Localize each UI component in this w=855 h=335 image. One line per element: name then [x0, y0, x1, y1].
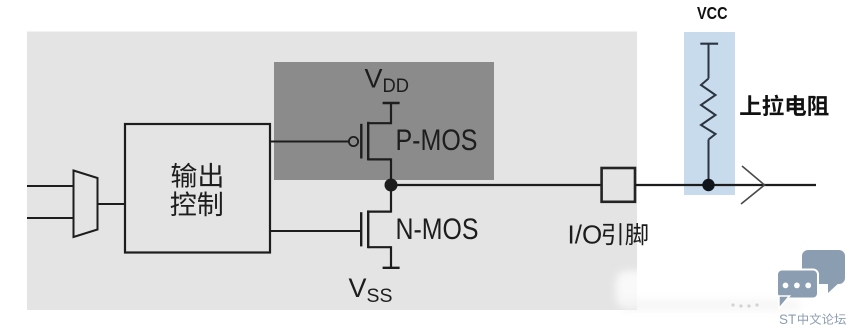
svg-text:DD: DD	[383, 75, 410, 97]
wire: I/O pad to external	[635, 184, 816, 186]
P-MOS highlight block (dark gray)	[274, 62, 494, 180]
svg-text:I/O: I/O	[568, 220, 603, 250]
watermark logo: front speech bubble with dots	[777, 270, 818, 309]
wire: node to I/O pad	[391, 184, 602, 186]
pull-up resistor highlight band (light blue)	[684, 32, 735, 195]
svg-text:N-MOS: N-MOS	[396, 213, 479, 246]
wire: mux output to output-control box	[98, 203, 126, 205]
svg-text:V: V	[365, 64, 383, 94]
label VSS supply	[349, 273, 393, 307]
watermark text ST中文论坛	[779, 312, 846, 327]
svg-text:P-MOS: P-MOS	[396, 124, 478, 157]
svg-text:ST: ST	[779, 312, 796, 327]
svg-text:V: V	[349, 273, 367, 303]
chip internal region (light gray background block)	[27, 32, 637, 311]
label I/O引脚 (I/O pin)	[568, 220, 648, 250]
wire: input line 2 into mux	[27, 217, 74, 219]
output control box U1	[125, 124, 270, 253]
P-MOS transistor Q1	[349, 102, 400, 185]
label 输出控制 (output control)	[171, 163, 222, 216]
node: output junction dot	[385, 179, 398, 192]
label VDD supply	[365, 64, 410, 98]
VCC terminal bar	[700, 43, 718, 45]
node: pull-up junction dot	[702, 179, 714, 191]
mux / input buffer trapezoid	[74, 171, 98, 238]
label 上拉电阻 (pull-up resistor)	[740, 95, 828, 116]
wire: box to P-MOS gate	[270, 141, 349, 143]
I/O pad square	[602, 168, 635, 202]
watermark logo: back speech bubble	[802, 250, 845, 293]
svg-text:VCC: VCC	[697, 3, 728, 23]
wire: box to N-MOS gate	[270, 230, 360, 232]
arrow head (signal direction)	[741, 166, 765, 204]
svg-text:SS: SS	[367, 286, 393, 307]
N-MOS transistor Q2	[361, 185, 399, 268]
watermark smudge	[616, 271, 812, 311]
resistor R pull-up (zigzag)	[701, 44, 716, 185]
wire: input line 1 into mux	[27, 185, 74, 187]
